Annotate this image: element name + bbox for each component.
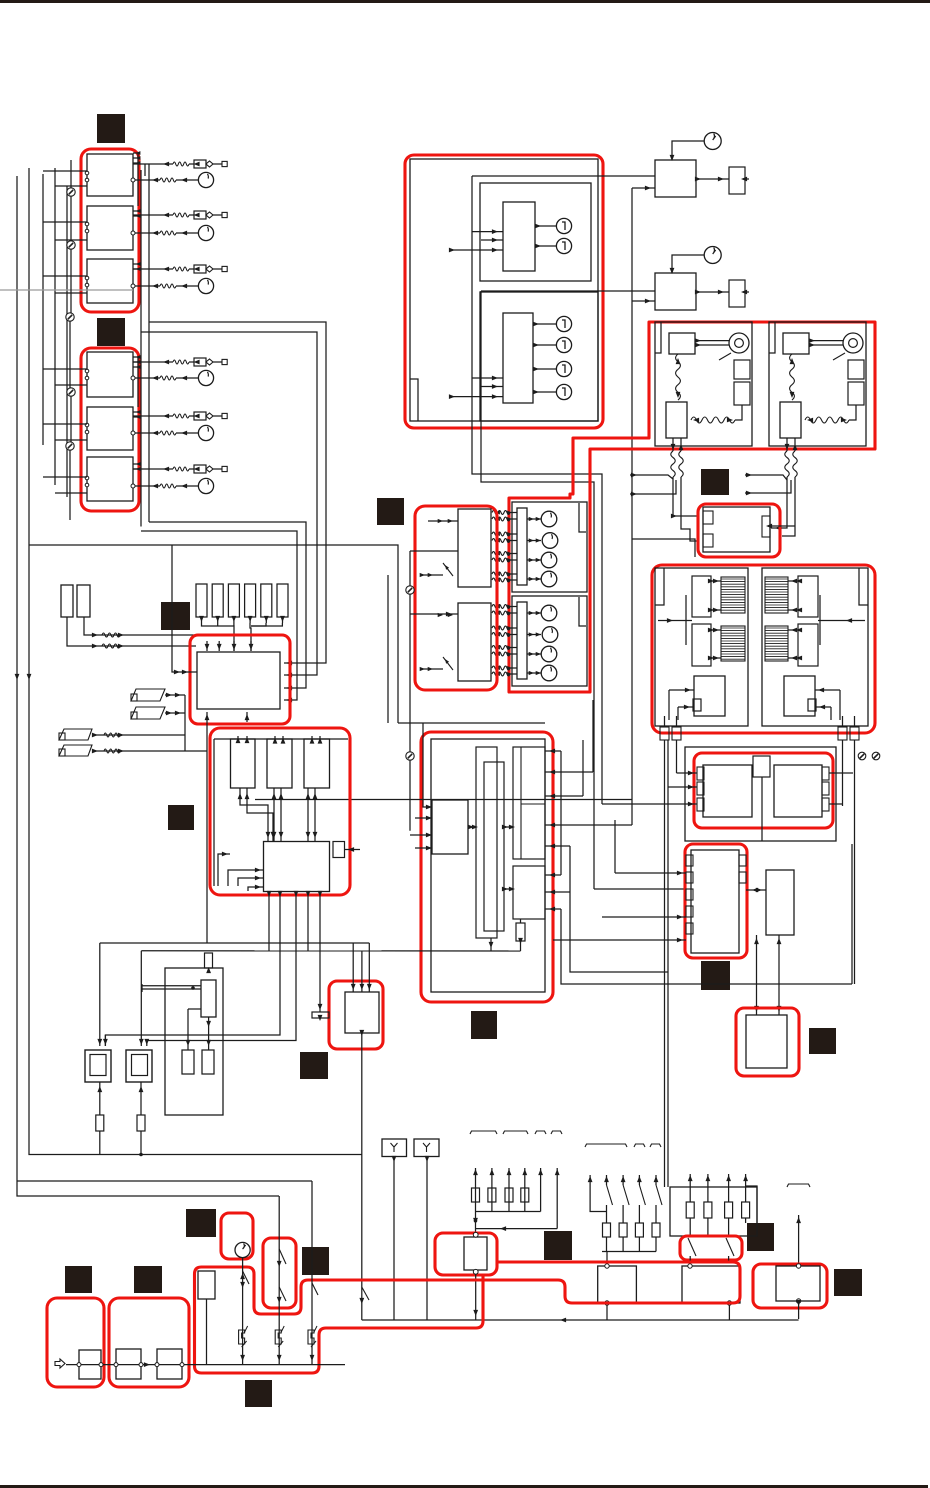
wire xyxy=(218,641,220,651)
module xyxy=(201,980,216,1017)
tall frame 1 xyxy=(476,747,497,938)
pin xyxy=(85,171,89,175)
relay 3 xyxy=(304,739,330,788)
wire xyxy=(144,164,146,176)
blower motor box xyxy=(776,1266,820,1301)
wire xyxy=(545,874,561,876)
wire xyxy=(728,1305,730,1320)
fan unit box xyxy=(769,322,866,446)
gauge xyxy=(541,511,557,527)
ignitor B inner xyxy=(132,1055,148,1076)
pin xyxy=(85,222,89,226)
switch xyxy=(279,1249,286,1264)
wire feed xyxy=(630,480,676,494)
label block L15 xyxy=(544,1231,572,1260)
wire out xyxy=(786,438,788,451)
wire xyxy=(533,323,556,325)
pin xyxy=(131,178,135,182)
pin xyxy=(822,767,829,780)
indicator lamp xyxy=(556,361,571,376)
wire xyxy=(415,847,432,849)
amplifier highlight xyxy=(698,504,780,557)
wire xyxy=(176,485,198,487)
wire xyxy=(438,519,443,523)
pressure gauge xyxy=(198,425,213,440)
side module xyxy=(333,842,345,858)
fuse xyxy=(505,1188,513,1202)
gauge xyxy=(541,605,557,621)
wire xyxy=(476,1228,558,1230)
wire xyxy=(756,935,758,1015)
wire xyxy=(638,1175,640,1185)
pin xyxy=(686,872,693,883)
wire xyxy=(423,723,432,807)
heater core xyxy=(721,626,745,661)
gauge xyxy=(541,571,557,587)
bracket xyxy=(634,1144,645,1147)
wire xyxy=(420,667,425,671)
junction big box xyxy=(197,652,280,709)
wire out xyxy=(680,438,682,451)
harness xyxy=(676,354,681,400)
wire xyxy=(345,849,360,851)
harness h xyxy=(805,417,849,423)
pin xyxy=(697,782,704,795)
label block L9 xyxy=(701,961,730,990)
amplifier box xyxy=(703,507,770,552)
notch xyxy=(655,568,664,605)
pin xyxy=(822,782,829,795)
cap xyxy=(205,953,213,968)
wire to timer unit 2 xyxy=(481,290,655,292)
main relay xyxy=(464,1237,487,1270)
wire xyxy=(250,641,252,651)
control panel highlight xyxy=(694,753,833,828)
wire xyxy=(622,1175,624,1185)
link box xyxy=(157,1349,182,1379)
capacitor xyxy=(182,1050,194,1074)
splice xyxy=(858,752,866,760)
heater core xyxy=(721,577,745,613)
wire mid arrows xyxy=(426,805,432,810)
label block L17 xyxy=(834,1269,862,1296)
wire xyxy=(638,1205,640,1223)
wire xyxy=(176,179,198,181)
indicator lamp xyxy=(556,337,571,352)
pin xyxy=(155,1363,159,1367)
panel top module xyxy=(753,756,770,777)
label block L14 xyxy=(302,1247,329,1275)
battery highlight xyxy=(47,1298,104,1387)
wire xyxy=(779,477,787,528)
servo box xyxy=(784,676,815,716)
wire xyxy=(545,908,561,910)
bracket xyxy=(470,1131,497,1134)
wire out xyxy=(672,438,674,451)
fuse plate xyxy=(312,1012,329,1018)
resistor pack xyxy=(734,360,750,379)
wire xyxy=(99,1131,101,1155)
heater half box xyxy=(762,568,868,726)
wire xyxy=(176,232,198,234)
pressure gauge xyxy=(198,478,213,493)
pin xyxy=(686,889,693,900)
pin xyxy=(131,284,135,288)
wire xyxy=(504,826,513,828)
injector group highlight xyxy=(81,149,139,312)
wire xyxy=(615,872,686,874)
wire feeds left xyxy=(43,170,87,172)
resistor xyxy=(516,923,525,941)
display unit 2 box xyxy=(480,292,598,421)
panel left unit xyxy=(703,765,752,817)
fan unit box xyxy=(655,322,752,446)
tall frame 2 xyxy=(484,762,504,931)
wire xyxy=(545,750,561,752)
wire xyxy=(667,972,669,1187)
wire branch xyxy=(17,1180,312,1182)
wire xyxy=(184,695,186,751)
harness row xyxy=(492,633,510,637)
wire xyxy=(606,1305,608,1320)
wire group1 right v xyxy=(140,170,142,527)
battery box xyxy=(79,1350,101,1379)
cluster bar xyxy=(517,508,527,585)
resistor xyxy=(137,1115,145,1131)
wire xyxy=(664,740,666,1187)
wire to timer unit 1 xyxy=(472,175,655,177)
wire fuse feed xyxy=(491,1168,493,1212)
harness row xyxy=(492,572,510,576)
relay panel highlight xyxy=(210,728,350,895)
display unit 1 module xyxy=(503,202,535,271)
wire xyxy=(631,539,633,825)
resistor xyxy=(173,267,189,271)
wire xyxy=(189,468,194,470)
fusible link highlight xyxy=(109,1298,189,1387)
inner rail xyxy=(214,738,348,740)
wire xyxy=(745,1174,747,1202)
pressure gauge xyxy=(198,172,213,187)
relay 1 xyxy=(231,739,256,788)
wire xyxy=(246,736,248,739)
cluster box xyxy=(512,502,587,592)
wire xyxy=(361,1033,363,1320)
timer clock xyxy=(704,133,721,150)
wire xyxy=(535,245,556,247)
wire xyxy=(352,943,354,992)
wire bus v1 xyxy=(472,176,602,804)
sub xyxy=(693,699,701,711)
pin xyxy=(114,1363,118,1367)
resistor xyxy=(160,376,176,380)
timer box xyxy=(655,160,696,197)
wire xyxy=(490,938,492,951)
splice xyxy=(406,752,414,760)
col2 highlight xyxy=(263,1238,296,1308)
harness row xyxy=(492,558,510,562)
wire xyxy=(428,520,458,522)
wire xyxy=(842,716,844,727)
relay module highlight xyxy=(685,844,747,958)
dot xyxy=(139,1153,143,1157)
fuse xyxy=(603,1223,611,1237)
blower unit xyxy=(798,624,818,666)
switch xyxy=(656,1185,662,1205)
gauge xyxy=(542,627,558,643)
pin xyxy=(739,872,746,883)
pin xyxy=(473,1232,478,1237)
wire xyxy=(475,1274,477,1320)
pin xyxy=(131,484,135,488)
switch xyxy=(688,1238,696,1256)
splice S4 xyxy=(67,388,75,396)
gauge xyxy=(542,533,558,549)
main block xyxy=(264,842,330,892)
breaker xyxy=(239,1330,245,1344)
ignition sw highlight xyxy=(221,1213,253,1259)
label block L1 xyxy=(97,114,125,143)
control box xyxy=(666,402,687,438)
pin xyxy=(605,1264,609,1268)
wire feed xyxy=(745,480,791,493)
wire xyxy=(481,239,503,241)
unit notch xyxy=(769,322,775,353)
link box xyxy=(116,1349,141,1379)
pin xyxy=(686,906,693,917)
heater half box xyxy=(655,568,748,726)
fuse row xyxy=(196,584,207,617)
wire xyxy=(582,740,584,796)
fan motor xyxy=(729,333,749,353)
fuse xyxy=(704,1202,712,1218)
fusible rect xyxy=(61,585,73,617)
wire xyxy=(545,795,583,797)
harness row xyxy=(492,532,510,536)
resistor xyxy=(173,213,189,217)
bracket xyxy=(685,595,687,645)
injector connector xyxy=(194,265,206,273)
wire xyxy=(140,951,142,1046)
switch xyxy=(312,1283,318,1295)
wire stair xyxy=(240,788,268,841)
heater core xyxy=(765,626,788,661)
sub xyxy=(808,699,816,711)
bracket xyxy=(535,1131,546,1134)
ignitor A inner xyxy=(90,1055,106,1076)
wire xyxy=(829,772,853,774)
injector group highlight xyxy=(81,348,139,511)
flag connector xyxy=(59,745,92,756)
wire xyxy=(816,706,831,708)
wire group2 right v xyxy=(148,164,150,522)
wire xyxy=(137,153,139,206)
display unit 2 module xyxy=(503,313,533,403)
wire xyxy=(176,432,198,434)
wire xyxy=(631,188,633,539)
pin xyxy=(697,767,704,780)
label block L7 xyxy=(471,1011,497,1039)
wire xyxy=(527,634,541,636)
pin xyxy=(139,1363,143,1367)
wire xyxy=(92,750,207,752)
resistor xyxy=(160,484,176,488)
wire xyxy=(658,620,692,622)
wire xyxy=(140,1082,142,1115)
bracket xyxy=(551,1131,562,1134)
wire xyxy=(99,943,101,1046)
wire xyxy=(622,1205,624,1223)
wire xyxy=(472,231,503,233)
relay module box xyxy=(691,850,739,953)
wire xyxy=(778,935,780,1015)
harness row xyxy=(492,511,510,515)
wire xyxy=(481,386,503,388)
resistor xyxy=(96,1115,104,1131)
wire xyxy=(188,1008,201,1010)
switch xyxy=(639,1185,645,1205)
control unit box xyxy=(87,154,133,196)
wire fuse feed xyxy=(475,1168,477,1212)
flag connector xyxy=(131,689,165,701)
injector connector xyxy=(194,160,206,168)
wire xyxy=(707,1218,709,1236)
wire xyxy=(746,1186,757,1223)
indicator lamp xyxy=(556,316,571,331)
flag connector xyxy=(59,729,92,740)
wire xyxy=(410,834,432,836)
fuse xyxy=(472,1188,480,1202)
wire xyxy=(410,613,458,615)
switch xyxy=(362,1287,369,1300)
wire xyxy=(782,477,795,536)
wire xyxy=(851,844,853,984)
key clock xyxy=(235,1242,250,1257)
harness row xyxy=(492,672,510,676)
wire to gauge xyxy=(133,232,160,234)
resistor pack xyxy=(848,360,864,379)
pressure gauge xyxy=(198,370,213,385)
wire xyxy=(614,820,616,873)
label block L4 xyxy=(168,805,194,830)
wire xyxy=(476,1211,541,1213)
wire xyxy=(92,734,185,736)
wire xyxy=(527,672,541,674)
wire xyxy=(707,1174,709,1202)
wire xyxy=(189,415,194,417)
wire xyxy=(770,525,795,527)
relay xyxy=(669,333,695,354)
wire xyxy=(527,578,541,580)
wire xyxy=(728,1218,730,1236)
switch xyxy=(443,563,453,576)
wire left nest xyxy=(218,854,230,886)
display unit 1 box xyxy=(480,183,591,281)
wire xyxy=(361,951,363,992)
wire xyxy=(533,391,556,393)
blower unit xyxy=(692,624,711,666)
pin xyxy=(796,1264,800,1268)
wire xyxy=(387,575,389,723)
pin xyxy=(822,798,829,811)
wire to gauge xyxy=(133,179,160,181)
heater core xyxy=(765,577,788,613)
wire xyxy=(393,1157,395,1321)
label block L12 xyxy=(65,1266,92,1293)
label block L3 xyxy=(161,602,190,630)
panel right unit xyxy=(774,765,822,817)
wire xyxy=(545,891,570,893)
injector connector xyxy=(194,412,206,420)
label block L8 xyxy=(701,469,729,495)
resistor xyxy=(173,414,189,418)
wire xyxy=(144,1039,149,1045)
fuse xyxy=(686,1202,694,1218)
relay block A xyxy=(432,800,468,854)
label block L10 xyxy=(809,1028,836,1054)
wire xyxy=(246,712,248,722)
wire merge xyxy=(250,623,251,651)
wire xyxy=(655,1237,657,1252)
wire xyxy=(99,1082,101,1115)
wire xyxy=(606,1175,608,1185)
dot xyxy=(191,986,195,990)
wire fuse feed xyxy=(540,1168,542,1212)
wire xyxy=(676,740,678,773)
blower unit xyxy=(798,576,818,617)
pin xyxy=(131,231,135,235)
wire xyxy=(206,967,211,973)
harness row xyxy=(492,652,510,656)
wire xyxy=(602,803,697,805)
wire splice drops xyxy=(70,196,72,241)
harness xyxy=(790,354,795,400)
pin xyxy=(85,476,89,480)
col3 wire xyxy=(311,1181,313,1365)
relay xyxy=(783,333,809,354)
wire xyxy=(415,817,432,819)
control unit box xyxy=(87,407,133,450)
pin xyxy=(703,534,713,547)
wire xyxy=(815,689,840,691)
harness row xyxy=(492,578,510,582)
gauge xyxy=(541,665,557,681)
main relay highlight xyxy=(435,1233,497,1275)
wire xyxy=(696,291,729,293)
pin xyxy=(180,1363,184,1367)
wire stub gray xyxy=(0,289,133,291)
wire xyxy=(689,1256,691,1264)
wire xyxy=(606,1205,608,1223)
wire xyxy=(319,736,321,739)
pin xyxy=(85,369,89,373)
wire to injector xyxy=(133,468,173,470)
wire stair xyxy=(247,788,273,841)
wire xyxy=(839,690,841,720)
splice xyxy=(406,586,414,594)
wire run D xyxy=(141,531,297,700)
pin xyxy=(697,798,704,811)
wire xyxy=(728,1256,730,1262)
harness row xyxy=(492,646,510,650)
wire xyxy=(527,612,541,614)
wire xyxy=(622,1237,624,1252)
divider xyxy=(520,747,522,859)
wire xyxy=(67,617,196,646)
wire xyxy=(673,477,698,516)
wire xyxy=(745,1218,747,1223)
wire to gauge xyxy=(133,432,160,434)
